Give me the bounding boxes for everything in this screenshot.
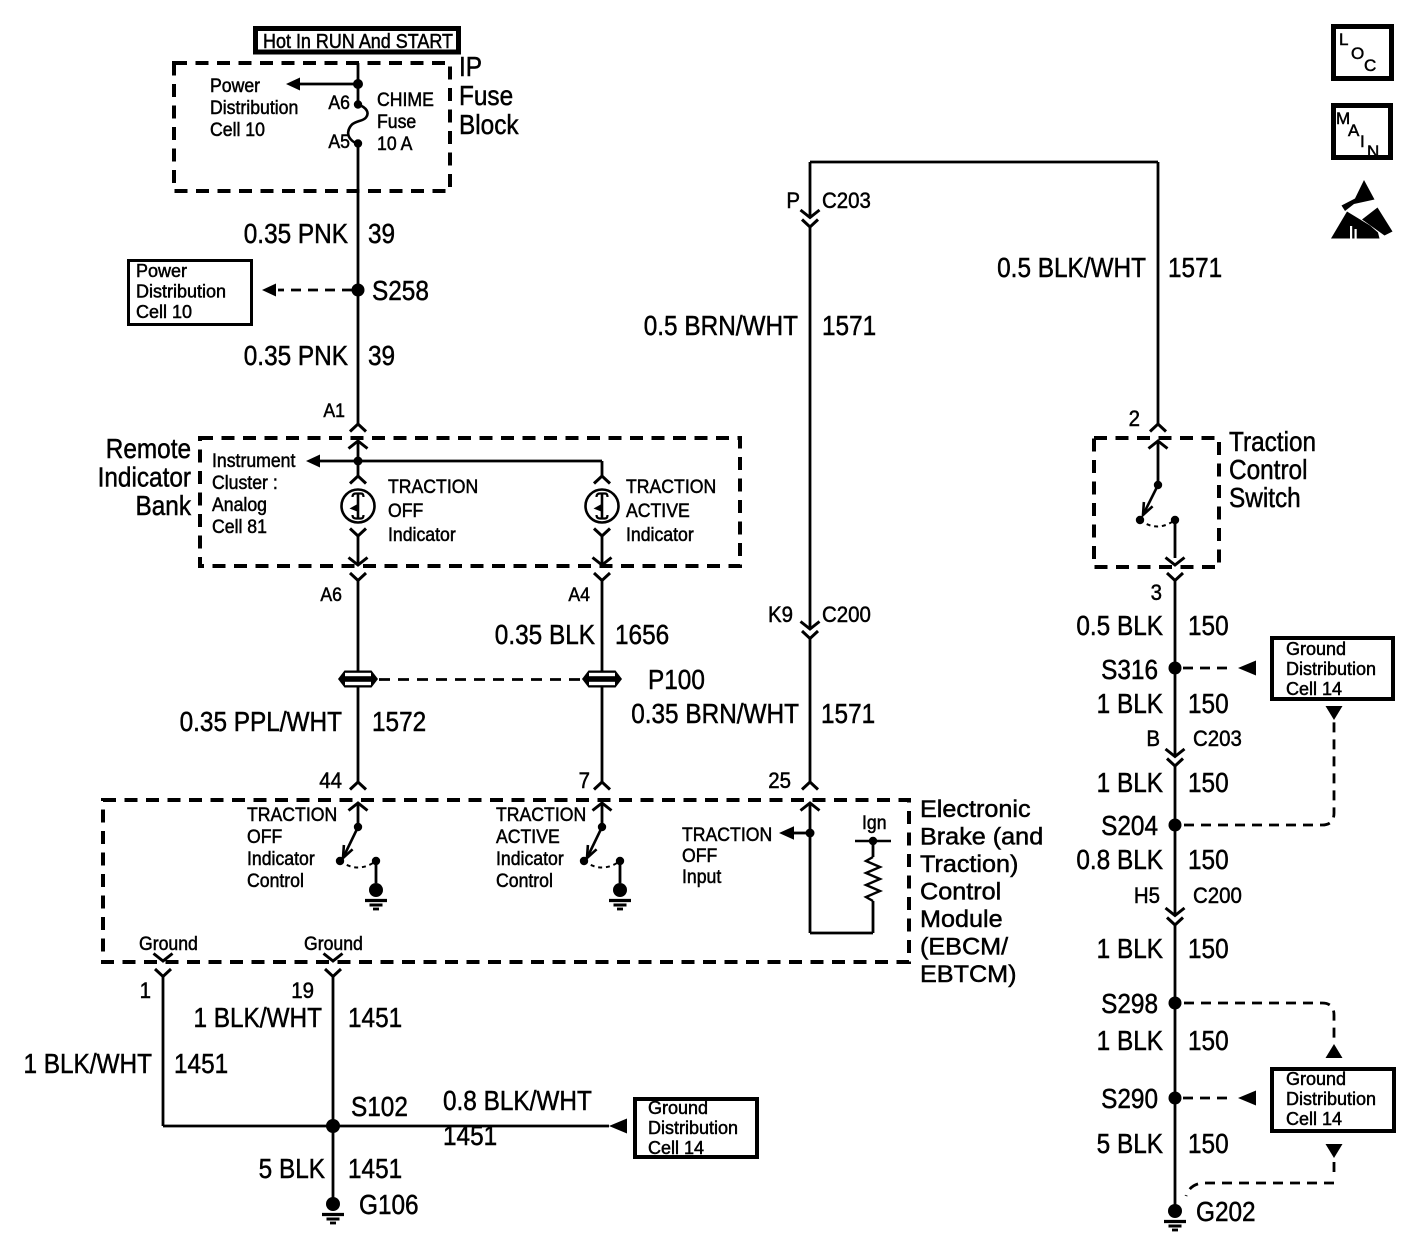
svg-text:Brake (and: Brake (and xyxy=(920,824,1043,850)
svg-text:1571: 1571 xyxy=(821,697,875,729)
svg-text:1451: 1451 xyxy=(174,1047,228,1079)
svg-text:Ground: Ground xyxy=(139,932,198,954)
svg-text:Ground: Ground xyxy=(304,932,363,954)
svg-text:Cluster :: Cluster : xyxy=(212,471,278,493)
svg-text:0.8 BLK/WHT: 0.8 BLK/WHT xyxy=(443,1084,592,1116)
svg-text:Bank: Bank xyxy=(135,489,191,521)
svg-text:OFF: OFF xyxy=(682,844,717,866)
svg-text:Distribution: Distribution xyxy=(136,282,226,302)
svg-text:1 BLK: 1 BLK xyxy=(1097,766,1164,798)
svg-text:ACTIVE: ACTIVE xyxy=(626,499,690,521)
svg-text:1 BLK/WHT: 1 BLK/WHT xyxy=(23,1047,152,1079)
svg-text:1451: 1451 xyxy=(443,1119,497,1151)
svg-text:1: 1 xyxy=(140,978,151,1003)
svg-text:Distribution: Distribution xyxy=(210,96,298,118)
svg-text:Control: Control xyxy=(496,869,553,891)
svg-text:S102: S102 xyxy=(351,1090,408,1122)
svg-text:S316: S316 xyxy=(1101,653,1158,685)
svg-text:Cell 81: Cell 81 xyxy=(212,515,267,537)
svg-text:Indicator: Indicator xyxy=(247,847,315,869)
svg-text:Indicator: Indicator xyxy=(626,523,694,545)
svg-text:G202: G202 xyxy=(1196,1195,1256,1227)
svg-text:Fuse: Fuse xyxy=(459,79,513,111)
svg-text:3: 3 xyxy=(1151,580,1162,605)
svg-text:Power: Power xyxy=(210,74,260,96)
svg-text:Cell 14: Cell 14 xyxy=(648,1138,704,1158)
svg-text:Ground: Ground xyxy=(1286,639,1346,659)
svg-text:C200: C200 xyxy=(822,602,871,627)
svg-text:150: 150 xyxy=(1188,843,1229,875)
svg-text:Cell 14: Cell 14 xyxy=(1286,679,1342,699)
svg-text:1 BLK/WHT: 1 BLK/WHT xyxy=(193,1001,322,1033)
svg-text:1 BLK: 1 BLK xyxy=(1097,687,1164,719)
svg-text:Indicator: Indicator xyxy=(98,461,192,493)
svg-text:TRACTION: TRACTION xyxy=(496,803,586,825)
svg-text:Hot In RUN And START: Hot In RUN And START xyxy=(263,31,453,53)
svg-text:Instrument: Instrument xyxy=(212,449,295,471)
svg-text:C200: C200 xyxy=(1193,883,1242,908)
svg-text:0.5 BRN/WHT: 0.5 BRN/WHT xyxy=(644,309,798,341)
svg-text:25: 25 xyxy=(768,768,791,793)
svg-text:150: 150 xyxy=(1188,932,1229,964)
svg-text:Ground: Ground xyxy=(1286,1069,1346,1089)
svg-text:S204: S204 xyxy=(1101,809,1158,841)
svg-text:1571: 1571 xyxy=(822,309,876,341)
svg-text:C203: C203 xyxy=(822,188,871,213)
svg-text:44: 44 xyxy=(319,768,342,793)
svg-text:S258: S258 xyxy=(372,274,429,306)
svg-text:Cell 14: Cell 14 xyxy=(1286,1109,1342,1129)
svg-text:1 BLK: 1 BLK xyxy=(1097,932,1164,964)
svg-text:C: C xyxy=(1364,56,1376,75)
svg-text:Power: Power xyxy=(136,261,187,281)
svg-text:1451: 1451 xyxy=(348,1001,402,1033)
svg-text:Fuse: Fuse xyxy=(377,110,416,132)
svg-text:A5: A5 xyxy=(328,130,350,152)
svg-text:A6: A6 xyxy=(320,583,342,605)
svg-text:S290: S290 xyxy=(1101,1082,1158,1114)
svg-text:7: 7 xyxy=(579,768,590,793)
svg-text:0.8 BLK: 0.8 BLK xyxy=(1076,843,1163,875)
svg-text:1 BLK: 1 BLK xyxy=(1097,1024,1164,1056)
svg-text:0.35 BLK: 0.35 BLK xyxy=(495,618,596,650)
svg-text:Ign: Ign xyxy=(862,811,887,833)
svg-text:C203: C203 xyxy=(1193,726,1242,751)
svg-text:O: O xyxy=(1351,44,1364,63)
svg-text:150: 150 xyxy=(1188,609,1229,641)
svg-text:10 A: 10 A xyxy=(377,132,413,154)
svg-text:0.5 BLK: 0.5 BLK xyxy=(1076,609,1163,641)
svg-text:5 BLK: 5 BLK xyxy=(259,1152,326,1184)
svg-text:Ground: Ground xyxy=(648,1098,708,1118)
svg-text:TRACTION: TRACTION xyxy=(682,823,772,845)
svg-text:150: 150 xyxy=(1188,1024,1229,1056)
svg-text:TRACTION: TRACTION xyxy=(388,475,478,497)
svg-text:CHIME: CHIME xyxy=(377,88,434,110)
svg-text:ACTIVE: ACTIVE xyxy=(496,825,560,847)
svg-text:150: 150 xyxy=(1188,687,1229,719)
svg-text:B: B xyxy=(1146,726,1160,751)
svg-text:EBTCM): EBTCM) xyxy=(920,962,1017,988)
svg-text:Switch: Switch xyxy=(1229,481,1301,513)
svg-text:0.35 PNK: 0.35 PNK xyxy=(244,217,349,249)
svg-text:2: 2 xyxy=(1129,406,1140,431)
svg-text:(EBCM/: (EBCM/ xyxy=(920,934,1008,960)
svg-text:N: N xyxy=(1367,142,1379,161)
svg-text:5 BLK: 5 BLK xyxy=(1097,1127,1164,1159)
svg-text:Traction): Traction) xyxy=(920,852,1018,878)
svg-text:Block: Block xyxy=(459,108,519,140)
svg-text:I: I xyxy=(1360,132,1365,151)
svg-text:Control: Control xyxy=(247,869,304,891)
svg-text:1572: 1572 xyxy=(372,705,426,737)
svg-text:150: 150 xyxy=(1188,1127,1229,1159)
svg-text:1656: 1656 xyxy=(615,618,669,650)
svg-text:Indicator: Indicator xyxy=(388,523,456,545)
svg-text:Cell 10: Cell 10 xyxy=(210,118,265,140)
svg-text:K9: K9 xyxy=(768,602,793,627)
svg-text:150: 150 xyxy=(1188,766,1229,798)
svg-text:39: 39 xyxy=(368,339,395,371)
svg-text:1451: 1451 xyxy=(348,1152,402,1184)
svg-text:Cell 10: Cell 10 xyxy=(136,302,192,322)
svg-text:0.35 PPL/WHT: 0.35 PPL/WHT xyxy=(180,705,342,737)
svg-text:A: A xyxy=(1348,121,1360,140)
svg-text:Input: Input xyxy=(682,865,721,887)
svg-text:IP: IP xyxy=(459,50,482,82)
svg-text:1571: 1571 xyxy=(1168,251,1222,283)
svg-text:G106: G106 xyxy=(359,1188,419,1220)
svg-text:P: P xyxy=(786,188,800,213)
svg-text:Distribution: Distribution xyxy=(1286,659,1376,679)
svg-text:Indicator: Indicator xyxy=(496,847,564,869)
svg-text:Module: Module xyxy=(920,907,1003,933)
svg-text:0.35 BRN/WHT: 0.35 BRN/WHT xyxy=(631,697,799,729)
svg-text:OFF: OFF xyxy=(388,499,423,521)
svg-text:L: L xyxy=(1339,30,1348,49)
svg-text:H5: H5 xyxy=(1134,883,1160,908)
svg-text:S298: S298 xyxy=(1101,987,1158,1019)
svg-text:TRACTION: TRACTION xyxy=(626,475,716,497)
svg-text:Analog: Analog xyxy=(212,493,267,515)
svg-text:19: 19 xyxy=(291,978,314,1003)
svg-text:P100: P100 xyxy=(648,663,705,695)
svg-text:A4: A4 xyxy=(568,583,590,605)
svg-text:Distribution: Distribution xyxy=(648,1118,738,1138)
svg-text:0.5 BLK/WHT: 0.5 BLK/WHT xyxy=(997,251,1146,283)
svg-text:A1: A1 xyxy=(323,399,345,421)
svg-text:Control: Control xyxy=(920,879,1001,905)
svg-text:Electronic: Electronic xyxy=(920,797,1031,823)
svg-text:Remote: Remote xyxy=(106,432,191,464)
svg-text:OFF: OFF xyxy=(247,825,282,847)
svg-text:Distribution: Distribution xyxy=(1286,1089,1376,1109)
svg-text:A6: A6 xyxy=(328,91,350,113)
svg-text:39: 39 xyxy=(368,217,395,249)
svg-text:TRACTION: TRACTION xyxy=(247,803,337,825)
svg-text:0.35 PNK: 0.35 PNK xyxy=(244,339,349,371)
